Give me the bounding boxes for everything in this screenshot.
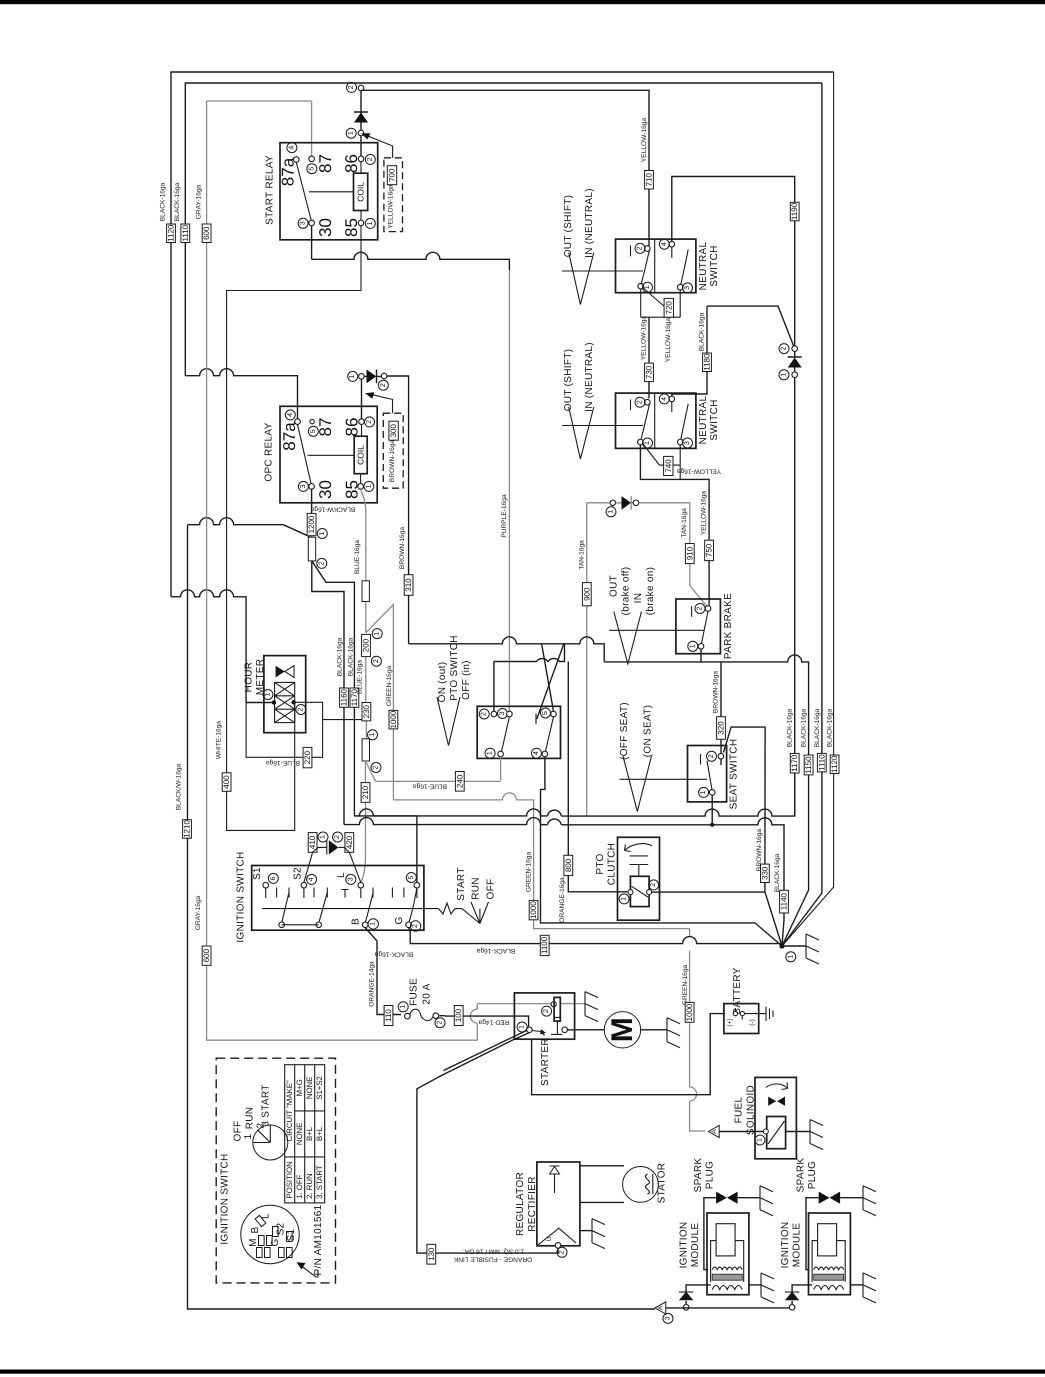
svg-text:(+): (+) [726, 1018, 733, 1026]
bottom page rule [0, 1370, 1045, 1374]
svg-text:2: 2 [412, 924, 419, 928]
svg-text:1: 1 [365, 484, 372, 488]
line Q from pto pin2 [494, 644, 565, 711]
svg-text:BLUE-16ga: BLUE-16ga [413, 783, 447, 790]
svg-text:GREEN-16ga: GREEN-16ga [386, 666, 393, 707]
svg-text:FUEL: FUEL [734, 1096, 745, 1123]
svg-text:OUT (SHIFT): OUT (SHIFT) [563, 195, 574, 258]
M motor [604, 1012, 640, 1048]
svg-text:1140: 1140 [780, 892, 789, 910]
svg-text:PTO SWITCH: PTO SWITCH [449, 635, 460, 701]
svg-text:BLUE-16ga: BLUE-16ga [357, 660, 364, 694]
svg-text:L: L [261, 1213, 272, 1219]
start relay diode above pin 86 [360, 90, 362, 131]
svg-text:1: 1 [787, 955, 794, 959]
svg-text:3: 3 [300, 221, 307, 225]
star ground symbol [782, 945, 806, 947]
legend rotary dial [253, 1125, 288, 1160]
svg-text:ORANGE - FUSIBLE LINK: ORANGE - FUSIBLE LINK [453, 1256, 532, 1263]
svg-text:3: 3 [499, 711, 506, 715]
svg-text:20 A: 20 A [422, 983, 433, 1004]
wire 600 tag bottom [202, 946, 211, 965]
svg-text:B: B [250, 1226, 261, 1233]
svg-text:2: 2 [373, 659, 380, 663]
svg-text:SPARK: SPARK [796, 1158, 807, 1193]
svg-text:S1: S1 [252, 867, 263, 880]
pto switch blades [502, 717, 554, 752]
svg-text:1: 1 [367, 221, 374, 225]
svg-text:1: 1 [519, 1025, 526, 1029]
svg-text:ORANGE-14ga: ORANGE-14ga [369, 961, 376, 1007]
svg-text:POSITION: POSITION [285, 1161, 294, 1198]
svg-text:900: 900 [582, 587, 591, 601]
svg-text:3: 3 [300, 484, 307, 488]
svg-text:87: 87 [316, 154, 335, 173]
svg-text:310: 310 [404, 578, 413, 592]
svg-text:1: 1 [487, 751, 494, 755]
svg-text:BLACK-16ga: BLACK-16ga [337, 637, 344, 676]
svg-text:PLUG: PLUG [705, 1161, 716, 1189]
svg-text:85: 85 [342, 218, 361, 237]
svg-text:BLACK-16ga: BLACK-16ga [814, 708, 821, 747]
svg-text:STARTER: STARTER [540, 1038, 551, 1086]
start/run/off V assembly [439, 902, 489, 924]
svg-text:BLACK-16ga: BLACK-16ga [374, 951, 413, 958]
svg-text:1: 1 [370, 922, 377, 926]
svg-text:START: START [456, 867, 467, 900]
line X: 1170 bus [354, 777, 794, 816]
svg-text:BLUE-16ga: BLUE-16ga [354, 540, 361, 574]
svg-text:YELLOW-16ga: YELLOW-16ga [701, 491, 708, 536]
svg-text:410: 410 [308, 835, 317, 849]
start relay blade 87a-30 [296, 162, 311, 221]
svg-text:OFF: OFF [233, 1121, 244, 1142]
opc relay pin 87 [310, 419, 314, 423]
svg-text:2: 2 [708, 754, 715, 758]
svg-text:NEUTRAL: NEUTRAL [698, 395, 709, 444]
svg-text:800: 800 [564, 858, 573, 872]
svg-text:PTO: PTO [595, 853, 606, 874]
svg-text:SWITCH: SWITCH [709, 399, 720, 440]
svg-text:4: 4 [661, 397, 668, 401]
svg-text:600: 600 [202, 948, 211, 962]
svg-text:87: 87 [316, 418, 335, 437]
green hop over battery line [690, 1087, 697, 1101]
svg-text:OUT (SHIFT): OUT (SHIFT) [563, 349, 574, 412]
svg-text:420: 420 [345, 835, 354, 849]
svg-text:4: 4 [308, 877, 315, 881]
svg-text:A: A [711, 1129, 718, 1134]
seat switch actuator + V [620, 778, 707, 780]
svg-text:(-): (-) [749, 1019, 756, 1026]
svg-text:750: 750 [705, 543, 714, 557]
svg-text:OPC RELAY: OPC RELAY [264, 422, 275, 481]
blue inline connector 1/2 [362, 739, 369, 761]
svg-text:OFF (in): OFF (in) [461, 660, 472, 700]
svg-text:1: 1 [689, 644, 696, 648]
svg-text:BROWN-16ga: BROWN-16ga [713, 671, 720, 713]
seat switch box [688, 746, 727, 802]
ignition module 1 [707, 1213, 749, 1295]
svg-text:G: G [270, 1238, 281, 1246]
start relay pin 86 [358, 156, 364, 162]
ns1 pins [645, 246, 651, 252]
wire 1160 from connector down [312, 561, 344, 825]
svg-text:START RELAY: START RELAY [265, 155, 276, 225]
svg-text:1.0 SQ. MM / 16 GA.: 1.0 SQ. MM / 16 GA. [463, 1248, 524, 1255]
wire 1190: NS1 pin4 up and right [672, 177, 795, 347]
starter solenoid [551, 1002, 556, 1007]
pto switch pins [479, 709, 489, 719]
svg-text:S1+S2: S1+S2 [315, 1076, 324, 1100]
svg-text:1180: 1180 [703, 353, 712, 371]
svg-text:2: 2 [637, 400, 644, 404]
svg-text:220: 220 [303, 750, 312, 764]
svg-text:S2: S2 [293, 867, 304, 880]
svg-text:FUSE: FUSE [409, 978, 420, 1006]
svg-text:330: 330 [760, 866, 769, 880]
svg-text:2: 2 [380, 383, 387, 387]
svg-text:U: U [546, 1236, 553, 1241]
svg-text:740: 740 [664, 459, 673, 473]
svg-text:GRAY-16ga: GRAY-16ga [195, 895, 202, 930]
svg-text:B+L: B+L [315, 1126, 324, 1141]
svg-text:2: 2 [373, 765, 380, 769]
battery box [724, 1004, 759, 1034]
ns2 pins [645, 399, 651, 405]
svg-text:NEUTRAL: NEUTRAL [698, 241, 709, 290]
svg-text:730: 730 [645, 365, 654, 379]
svg-text:RUN: RUN [245, 1107, 256, 1130]
svg-text:BLACK-16ga: BLACK-16ga [699, 312, 706, 351]
svg-text:1000: 1000 [529, 901, 538, 919]
svg-text:2: 2 [366, 420, 373, 424]
svg-text:2: 2 [348, 85, 355, 89]
wire 1120 ground bus y=596.8 to hour meter [171, 590, 272, 703]
svg-text:1150: 1150 [804, 756, 813, 774]
start relay pin 87a [294, 157, 300, 163]
svg-text:IGNITION: IGNITION [679, 1222, 690, 1269]
svg-text:1160: 1160 [340, 688, 349, 706]
fuel solenoid box [755, 1077, 796, 1158]
orange 800 wire [568, 662, 627, 892]
svg-text:A: A [658, 1305, 665, 1310]
svg-text:2: 2 [637, 246, 644, 250]
svg-text:1170: 1170 [790, 754, 799, 772]
svg-text:110: 110 [384, 1009, 393, 1022]
wire 400 tag [222, 773, 231, 792]
svg-text:1: 1 [264, 692, 271, 696]
blue 240 line to pto 1 [376, 757, 501, 782]
tan 900 tag [582, 583, 591, 606]
svg-text:1: 1 [374, 632, 381, 636]
svg-text:1: 1 [621, 897, 628, 901]
svg-text:1: 1 [319, 531, 326, 535]
svg-text:3: 3 [347, 877, 354, 881]
wire 600 gray: start relay 87 to starter [207, 101, 585, 1040]
clutch 2 wire to 330 [652, 891, 765, 893]
opc relay box [280, 406, 377, 503]
svg-text:RECTIFIER: RECTIFIER [527, 1176, 538, 1231]
pto clutch box [618, 837, 660, 920]
svg-text:BLACK-16ga: BLACK-16ga [787, 708, 794, 747]
diode on 1190 wire [792, 346, 798, 352]
svg-text:MODULE: MODULE [690, 1223, 701, 1268]
pto 4 wire down to star [541, 757, 783, 946]
wire 1140 [780, 890, 789, 913]
opc relay pin 30 [309, 484, 315, 490]
svg-text:1: 1 [700, 790, 707, 794]
svg-text:(ON SEAT): (ON SEAT) [643, 705, 654, 758]
svg-text:210: 210 [361, 785, 370, 799]
svg-text:5: 5 [408, 875, 415, 879]
svg-text:CLUTCH: CLUTCH [607, 843, 618, 885]
svg-text:1: 1 [369, 733, 376, 737]
svg-text:SOLINOID: SOLINOID [746, 1085, 757, 1135]
wire 1120 tag right [830, 755, 839, 774]
legend pn arrow [302, 1267, 318, 1278]
start relay coil [354, 173, 368, 210]
start relay pin 85 [358, 220, 364, 226]
ignition 5 pin wire up to line X [354, 816, 417, 883]
svg-text:M: M [606, 1017, 639, 1042]
ns1 actuator line + V arrow [562, 270, 643, 272]
svg-text:86: 86 [342, 154, 361, 173]
park brake box [676, 599, 721, 654]
svg-text:600: 600 [202, 226, 211, 240]
svg-text:YELLOW-16ga: YELLOW-16ga [641, 118, 648, 163]
svg-text:1000: 1000 [389, 710, 398, 728]
legend dashed box [216, 1058, 335, 1283]
svg-text:STATOR: STATOR [657, 1163, 668, 1204]
bottom line triangle A 3 [655, 1302, 666, 1314]
wire 1120 left vertical + top ring [171, 72, 834, 597]
svg-text:BATTERY: BATTERY [732, 967, 743, 1014]
svg-text:GREEN-16ga: GREEN-16ga [682, 965, 689, 1006]
svg-text:CIRCUIT "MAKE": CIRCUIT "MAKE" [285, 1080, 294, 1142]
svg-text:SEAT SWITCH: SEAT SWITCH [729, 739, 740, 810]
svg-text:NONE: NONE [295, 1123, 304, 1146]
svg-text:BLACKW-16ga: BLACKW-16ga [310, 506, 355, 513]
module 1 left wire + diode [686, 1285, 711, 1307]
wire 600 tag top [202, 224, 211, 243]
wire 730 to ns2 [648, 317, 650, 398]
svg-text:1120: 1120 [830, 755, 839, 773]
svg-text:GRAY-16ga: GRAY-16ga [195, 184, 202, 219]
svg-text:HOUR: HOUR [244, 662, 255, 693]
park brake actuator + V [609, 629, 704, 631]
regulator ground [580, 1230, 592, 1232]
svg-text:1: 1 [644, 285, 651, 289]
battery ground [763, 1007, 774, 1022]
park brake 1 wire to 1150 [604, 649, 808, 946]
svg-text:M: M [248, 1238, 259, 1247]
svg-text:MODULE: MODULE [792, 1223, 803, 1268]
svg-text:BLACK-16ga: BLACK-16ga [476, 947, 515, 954]
svg-text:5: 5 [542, 711, 549, 715]
legend table [285, 1065, 325, 1203]
svg-text:NONE: NONE [305, 1077, 314, 1100]
svg-text:1. OFF: 1. OFF [295, 1174, 304, 1198]
svg-text:WHITE-16ga: WHITE-16ga [215, 721, 222, 759]
svg-text:1110: 1110 [817, 754, 826, 771]
module 2 left wire + diode [792, 1285, 812, 1307]
svg-text:IGNITION SWITCH: IGNITION SWITCH [220, 1153, 231, 1244]
svg-text:2: 2 [543, 1009, 550, 1013]
svg-text:230: 230 [362, 704, 371, 718]
svg-text:B: B [351, 918, 362, 925]
diode 410/420 above ignition [308, 833, 317, 853]
fusible link diagonals from starter 1 [417, 1030, 558, 1253]
svg-text:(OFF SEAT): (OFF SEAT) [619, 702, 630, 760]
svg-text:S1: S1 [286, 1228, 297, 1241]
svg-text:(brake off): (brake off) [621, 567, 632, 616]
battery feed line [532, 1014, 725, 1095]
ignition inner bar [262, 908, 438, 910]
svg-text:3: 3 [684, 441, 691, 445]
svg-text:910: 910 [685, 546, 694, 560]
neutral switch 2 box [616, 393, 696, 448]
svg-text:BLACK-16ga: BLACK-16ga [800, 708, 807, 747]
svg-text:2. RUN: 2. RUN [305, 1173, 314, 1199]
wire 1110 tag left [181, 224, 190, 243]
svg-text:IN: IN [633, 593, 644, 604]
svg-text:IGNITION: IGNITION [780, 1222, 791, 1269]
svg-text:320: 320 [717, 721, 726, 735]
svg-text:2: 2 [697, 606, 704, 610]
svg-text:G: G [394, 916, 405, 924]
svg-text:100: 100 [454, 1008, 463, 1022]
svg-text:1000: 1000 [685, 1003, 694, 1021]
svg-text:TAN-16ga: TAN-16ga [681, 508, 688, 538]
svg-text:1100: 1100 [540, 936, 549, 954]
hour meter counter [275, 682, 295, 722]
wire 1120 tag left [167, 224, 176, 243]
pto switch box [477, 706, 560, 758]
svg-text:1: 1 [243, 1133, 254, 1139]
svg-text:4: 4 [533, 751, 540, 755]
wire 400 white: start relay 85 to hour meter 2 [227, 226, 363, 831]
svg-text:1: 1 [757, 1138, 764, 1142]
svg-text:1: 1 [644, 441, 651, 445]
svg-text:BROWN-16ga: BROWN-16ga [389, 440, 396, 482]
ignition bottom pins [279, 922, 285, 928]
svg-text:YELLOW-16ga: YELLOW-16ga [388, 184, 395, 229]
regulator rectifier box [537, 1162, 580, 1246]
start relay pin 87 [309, 156, 315, 162]
wire 1200 from opc 30 down to connector [311, 489, 313, 536]
wire 1120 right vertical [782, 72, 834, 946]
svg-text:1200: 1200 [307, 515, 316, 533]
svg-text:300: 300 [389, 423, 398, 437]
svg-text:BLACK-16ga: BLACK-16ga [774, 853, 781, 892]
svg-text:4: 4 [287, 413, 294, 417]
svg-text:RUN: RUN [471, 877, 482, 900]
svg-text:3 START: 3 START [261, 1084, 272, 1126]
svg-text:3. START: 3. START [315, 1165, 324, 1199]
neutral switch 1 box [616, 239, 696, 293]
ns2 actuator + V arrow [562, 425, 643, 427]
hour meter bowtie [276, 666, 285, 678]
svg-text:YELLOW-16ga: YELLOW-16ga [665, 318, 672, 363]
svg-text:BROWN-16ga: BROWN-16ga [399, 527, 406, 569]
opc relay pin 87a [295, 419, 301, 425]
svg-text:YELLOW-16ga: YELLOW-16ga [677, 468, 722, 475]
svg-text:2: 2 [318, 561, 325, 565]
brown 330 wire [724, 727, 783, 946]
svg-text:B+L: B+L [305, 1126, 314, 1141]
bus from start relay 30 down and right [312, 226, 510, 270]
svg-text:M+G: M+G [295, 1079, 304, 1096]
seat 1 wire into line Y [711, 795, 713, 825]
wire 1170 from connector down [312, 561, 355, 816]
module 2 right ground [850, 1284, 863, 1286]
svg-text:L: L [336, 872, 347, 878]
wire 1110 tag right [817, 753, 826, 772]
brown 320: park brake to seat switch 2 [720, 662, 722, 765]
tan diode line below ns2 [610, 500, 616, 506]
opc relay diode line [348, 371, 358, 381]
svg-text:COIL: COIL [356, 445, 366, 465]
orange 14ga wire B pin to fuse [365, 928, 401, 1015]
opc relay pin 85 [358, 484, 364, 490]
svg-text:BLACK-16ga: BLACK-16ga [347, 637, 354, 676]
svg-text:SWITCH: SWITCH [709, 245, 720, 286]
svg-text:130: 130 [427, 1247, 436, 1261]
svg-text:S2: S2 [276, 1222, 287, 1235]
svg-text:PLUG: PLUG [807, 1161, 818, 1189]
svg-text:1: 1 [400, 1005, 407, 1009]
svg-text:GREEN-16ga: GREEN-16ga [526, 852, 533, 893]
svg-text:1190: 1190 [790, 202, 799, 220]
green 1000 wire peak junction [366, 605, 706, 1132]
svg-text:2: 2 [367, 157, 374, 161]
svg-text:2: 2 [559, 1250, 566, 1254]
svg-text:400: 400 [222, 775, 231, 789]
ignition contact ticks [266, 888, 417, 899]
brown 310 line to pto area [409, 637, 605, 662]
black 1100 line from ignition G [409, 928, 782, 944]
1170 right vertical: diode to bus [794, 378, 796, 817]
wire 1210 tag [183, 820, 192, 839]
svg-text:ON (out): ON (out) [437, 662, 448, 703]
top page rule [0, 0, 1045, 4]
start relay box [280, 143, 378, 240]
inline connector below tag 1200 [308, 537, 315, 561]
svg-text:2: 2 [781, 347, 788, 351]
svg-text:REGULATOR: REGULATOR [515, 1172, 526, 1236]
long blade feed diagonals into pin5 [537, 644, 564, 719]
opc relay coil [354, 436, 367, 474]
hour meter pins [263, 690, 273, 700]
svg-text:240: 240 [455, 774, 464, 788]
svg-text:200: 200 [362, 638, 371, 652]
ns2 outputs: 740 tag [643, 444, 680, 480]
svg-text:1: 1 [608, 510, 615, 514]
ignition switch box [252, 866, 424, 931]
star ground point [779, 943, 784, 948]
svg-text:1120: 1120 [167, 224, 176, 242]
svg-text:PURPLE-16ga: PURPLE-16ga [501, 494, 508, 538]
svg-text:710: 710 [645, 172, 654, 186]
ignition module 2 [809, 1213, 851, 1295]
svg-text:RED-14ga: RED-14ga [478, 1019, 509, 1026]
svg-text:86: 86 [343, 418, 362, 437]
svg-text:OUT: OUT [609, 575, 620, 597]
opc relay dashed box + tag 300 [383, 413, 403, 488]
svg-text:87a: 87a [280, 422, 299, 451]
svg-text:OFF: OFF [486, 879, 497, 900]
